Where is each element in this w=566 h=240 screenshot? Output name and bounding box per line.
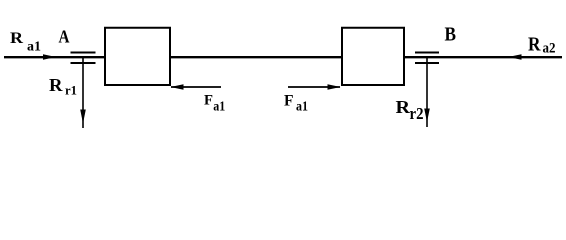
force arrow R_a2 head (axial load at B, pointing left) [508,54,522,59]
svg-text:r2: r2 [410,104,424,123]
svg-text:F: F [284,93,294,110]
force arrow R_a1 head (axial load at A, pointing right) [43,54,56,59]
bearing A upper tick [71,52,96,54]
svg-text:F: F [204,93,213,109]
svg-text:A: A [59,27,70,47]
force arrow F_a1 left (pointing left at left box) [171,86,221,88]
force arrow R_r2 head (radial reaction at B, pointing down) [424,109,430,123]
force arrow F_a1 right (pointing right at right box) [288,86,340,88]
wire: shaft axis middle segment [170,56,343,58]
wire: shaft axis left segment [4,56,106,58]
svg-text:R: R [10,30,24,47]
bearing A lower tick [71,62,96,64]
svg-text:a1: a1 [27,40,41,55]
bearing B upper tick [415,52,439,54]
svg-text:R: R [528,34,541,56]
wire: bearing A radial reaction line [82,57,84,128]
box: left gear/hub [105,28,170,85]
wire: bearing B radial reaction line [426,57,428,127]
force arrow R_r1 head (radial reaction at A, pointing down) [80,110,86,124]
box: right gear/hub [342,28,404,85]
svg-text:a2: a2 [543,41,556,57]
wire: shaft axis right segment [404,56,562,58]
svg-text:B: B [445,25,457,46]
svg-text:a1: a1 [213,100,225,115]
svg-text:a1: a1 [296,100,308,115]
svg-text:R: R [49,75,63,95]
svg-text:r1: r1 [65,84,77,98]
bearing B lower tick [415,62,439,64]
